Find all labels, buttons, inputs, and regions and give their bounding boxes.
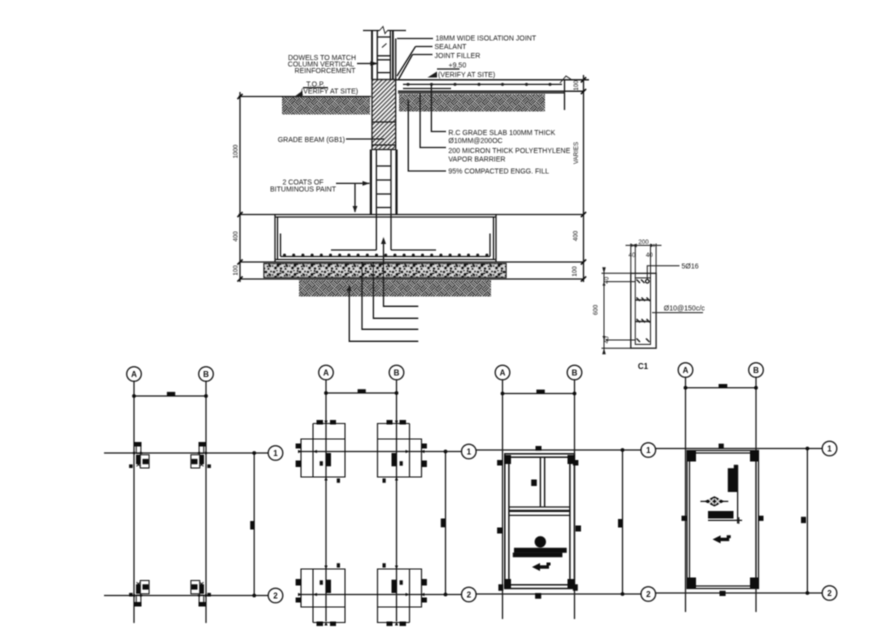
- svg-text:200 MICRON THICK POLYETHYLENE: 200 MICRON THICK POLYETHYLENE: [448, 148, 570, 155]
- svg-text:1: 1: [646, 446, 651, 455]
- svg-text:2: 2: [827, 589, 832, 598]
- svg-text:VARIES: VARIES: [573, 142, 580, 164]
- svg-text:40: 40: [629, 252, 636, 259]
- svg-text:A: A: [683, 366, 689, 375]
- svg-text:400: 400: [233, 231, 240, 242]
- svg-text:B: B: [203, 370, 209, 379]
- svg-text:40: 40: [646, 252, 653, 259]
- svg-text:VAPOR BARRIER: VAPOR BARRIER: [448, 157, 505, 164]
- svg-text:GRADE BEAM (GB1): GRADE BEAM (GB1): [278, 137, 345, 144]
- svg-text:SEALANT: SEALANT: [435, 44, 468, 51]
- svg-text:2: 2: [273, 592, 278, 601]
- svg-text:JOINT FILLER: JOINT FILLER: [435, 53, 481, 60]
- svg-text:A: A: [500, 369, 506, 378]
- svg-text:+9.50: +9.50: [449, 62, 467, 69]
- svg-text:100: 100: [572, 266, 579, 277]
- svg-text:A: A: [131, 370, 137, 379]
- svg-text:100: 100: [573, 80, 580, 91]
- svg-text:B: B: [572, 369, 578, 378]
- svg-text:600: 600: [593, 304, 600, 315]
- svg-text:1000: 1000: [233, 144, 240, 158]
- svg-text:40: 40: [604, 336, 611, 343]
- svg-text:C1: C1: [638, 362, 649, 371]
- svg-text:REINFORCEMENT: REINFORCEMENT: [294, 68, 356, 75]
- svg-text:200: 200: [638, 239, 649, 246]
- svg-text:B: B: [753, 366, 759, 375]
- svg-text:2: 2: [467, 591, 472, 600]
- svg-text:1: 1: [467, 448, 472, 457]
- svg-text:18MM WIDE ISOLATION JOINT: 18MM WIDE ISOLATION JOINT: [436, 36, 537, 43]
- svg-text:100: 100: [233, 265, 240, 276]
- svg-text:1: 1: [273, 449, 278, 458]
- svg-text:BITUMINOUS PAINT: BITUMINOUS PAINT: [270, 186, 337, 193]
- svg-text:Ø10MM@200OC: Ø10MM@200OC: [448, 138, 502, 145]
- svg-text:R.C GRADE SLAB 100MM THICK: R.C GRADE SLAB 100MM THICK: [448, 130, 555, 137]
- svg-text:400: 400: [573, 230, 580, 241]
- svg-text:(VERIFY AT SITE): (VERIFY AT SITE): [438, 72, 495, 79]
- svg-text:Ø10@150c/c: Ø10@150c/c: [664, 305, 705, 312]
- svg-text:95% COMPACTED ENGG. FILL: 95% COMPACTED ENGG. FILL: [448, 169, 549, 176]
- svg-text:5Ø16: 5Ø16: [682, 263, 699, 270]
- svg-text:40: 40: [604, 276, 611, 283]
- svg-text:2: 2: [646, 590, 651, 599]
- svg-text:A: A: [323, 369, 329, 378]
- svg-text:(VERIFY AT SITE): (VERIFY AT SITE): [301, 89, 358, 96]
- svg-text:B: B: [394, 369, 400, 378]
- svg-text:2 COATS OF: 2 COATS OF: [282, 179, 323, 186]
- svg-text:1: 1: [827, 445, 832, 454]
- svg-text:T.O.P.: T.O.P.: [306, 81, 325, 88]
